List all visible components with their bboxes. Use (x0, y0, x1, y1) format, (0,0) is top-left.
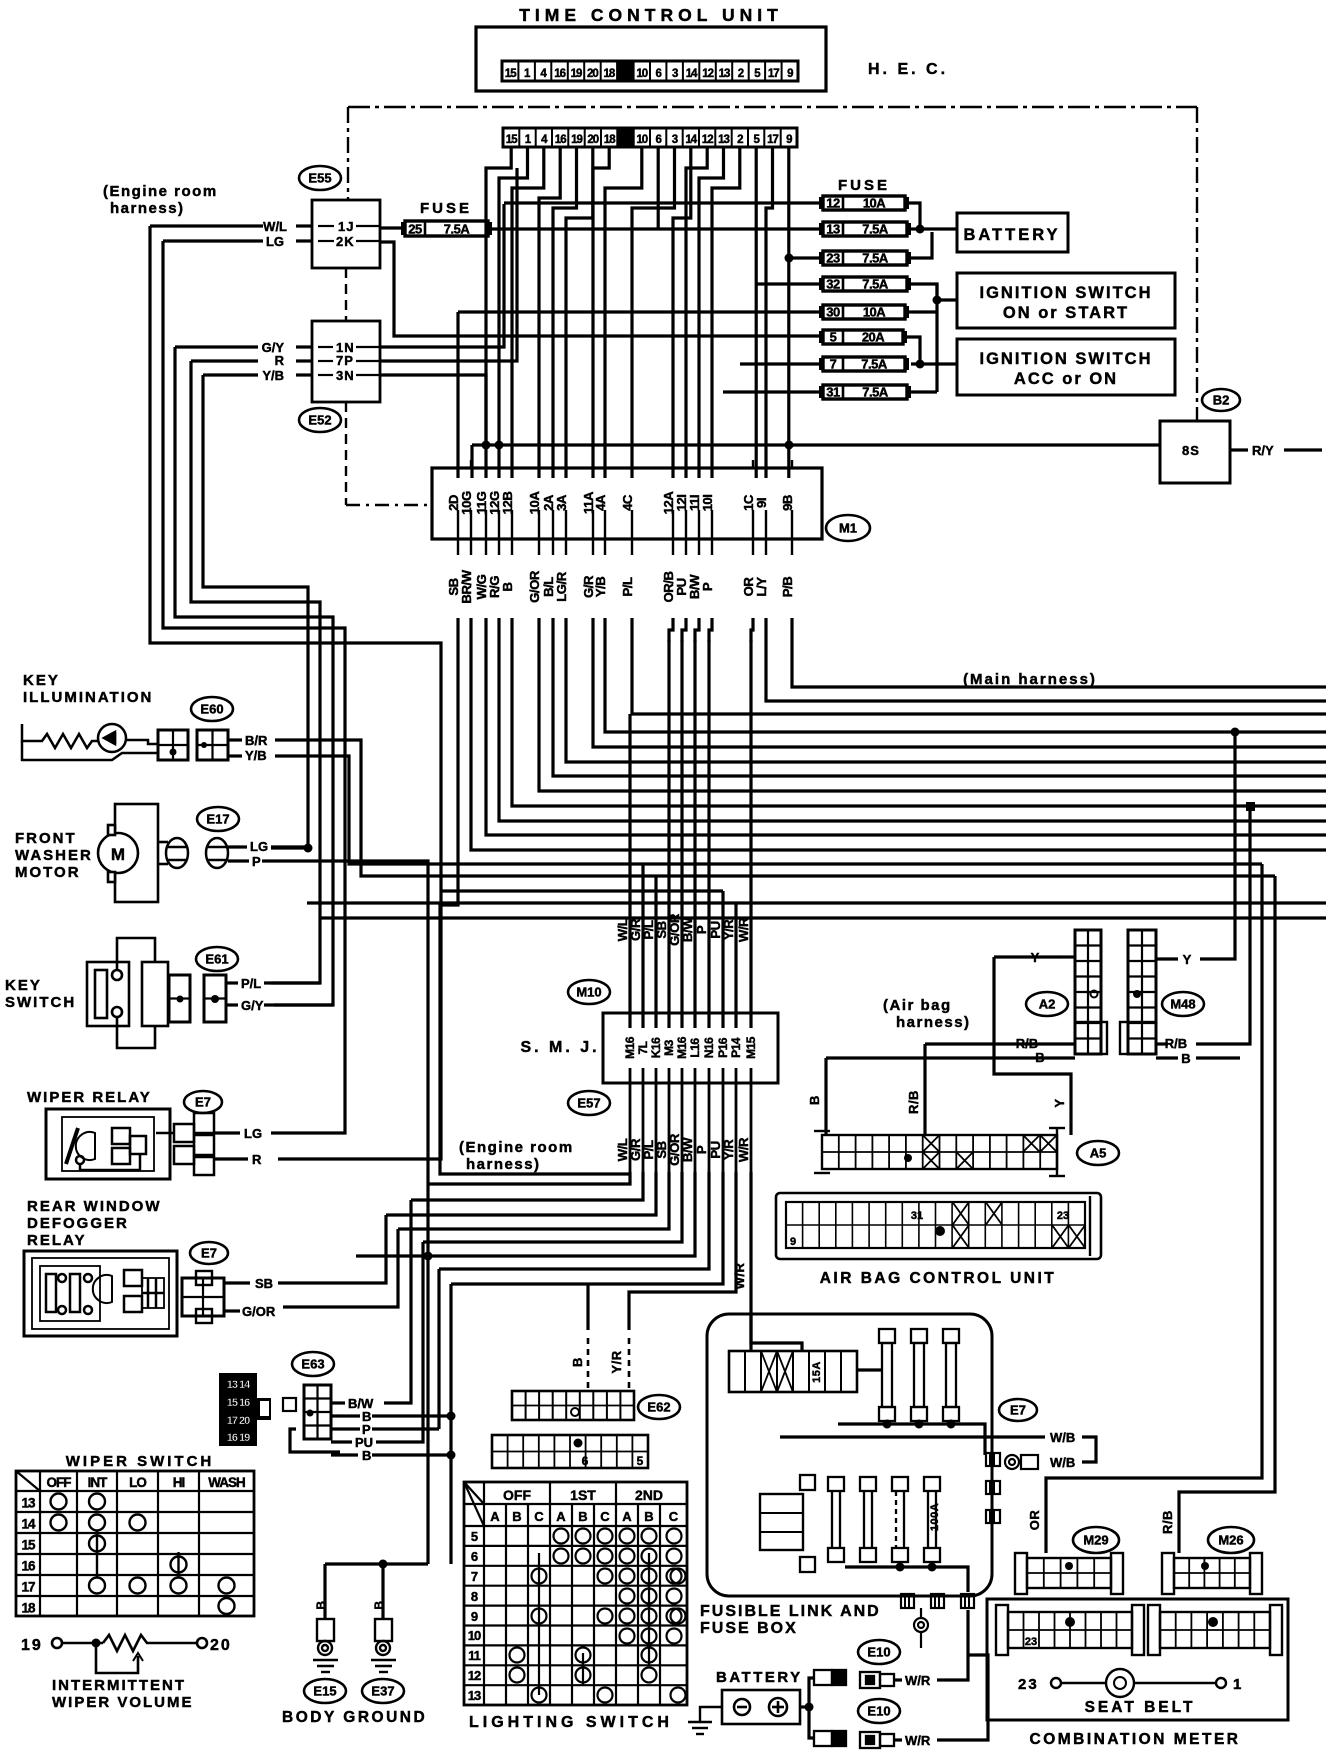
svg-text:BODY GROUND: BODY GROUND (282, 1709, 427, 1726)
dash link E55-E52 (345, 268, 347, 321)
svg-text:R: R (275, 353, 285, 368)
svg-text:RELAY: RELAY (27, 1232, 86, 1249)
wire Y/B E60 to harness 864 (275, 756, 1262, 864)
svg-text:R/Y: R/Y (1252, 443, 1274, 458)
svg-text:(Engine room: (Engine room (103, 183, 218, 200)
wire P E17 down to ground row (262, 861, 428, 1564)
svg-text:11: 11 (468, 1648, 481, 1663)
svg-text:9: 9 (790, 1236, 796, 1248)
stub W/L to E55 (296, 224, 312, 227)
svg-text:18: 18 (604, 134, 616, 146)
svg-text:W/R: W/R (905, 1733, 931, 1748)
svg-text:Y: Y (1052, 1098, 1067, 1107)
svg-text:18: 18 (21, 1601, 36, 1616)
svg-text:M15: M15 (744, 1036, 758, 1059)
svg-text:E62: E62 (647, 1400, 670, 1415)
wire SB M1 loop down-left (440, 618, 630, 1174)
wire harness 918 (319, 916, 1326, 919)
svg-text:E63: E63 (301, 1357, 324, 1372)
ground connector E37 symbol (371, 1619, 396, 1672)
wire fuse12 row left (504, 201, 823, 204)
svg-text:B: B (512, 1509, 521, 1524)
svg-text:12: 12 (468, 1668, 481, 1683)
svg-text:3A: 3A (554, 494, 569, 511)
TCU connector strip pins (502, 61, 798, 81)
svg-text:WIPER VOLUME: WIPER VOLUME (52, 1694, 194, 1711)
svg-text:E55: E55 (308, 171, 331, 186)
lighting switch table headers (468, 1487, 679, 1703)
E10 lower connector and W/R (860, 1732, 894, 1748)
svg-text:OFF: OFF (503, 1487, 531, 1503)
hatched stubs right edge (986, 1453, 1000, 1466)
wire B E63 right (372, 1414, 451, 1417)
E61 block left (169, 975, 190, 1022)
svg-text:FUSE BOX: FUSE BOX (700, 1620, 798, 1637)
wire Y/R to E62 (629, 1172, 736, 1330)
connector ref E62 (638, 1395, 680, 1419)
svg-text:5: 5 (637, 1454, 644, 1468)
svg-text:10A: 10A (863, 196, 886, 211)
svg-text:B: B (1181, 1051, 1190, 1066)
junction ign1 feed (933, 296, 942, 305)
svg-text:A5: A5 (1090, 1146, 1107, 1161)
engine-harness connector strip pins (503, 128, 797, 147)
wire harness 891 (440, 889, 723, 892)
wire B/W E63 via x411 (384, 1200, 411, 1403)
svg-text:6: 6 (655, 68, 661, 80)
W/B bracket (1082, 1437, 1096, 1462)
svg-text:1J: 1J (338, 219, 354, 234)
E10 upper connector and W/R (860, 1672, 894, 1688)
svg-text:BATTERY: BATTERY (963, 226, 1060, 244)
svg-text:L/Y: L/Y (754, 577, 769, 597)
svg-text:10I: 10I (700, 495, 715, 512)
wire W/R into fuse strip (751, 1314, 802, 1351)
junction battery feed (916, 225, 925, 234)
svg-text:W/R: W/R (736, 917, 751, 942)
svg-text:MOTOR: MOTOR (15, 864, 81, 881)
wire E63 loop (290, 1429, 340, 1452)
washer motor symbol M (98, 804, 168, 902)
wire fuse12 to battery (907, 203, 957, 229)
wire 7P right up (380, 168, 517, 361)
junction E17 LG (304, 844, 313, 853)
svg-text:harness): harness) (466, 1156, 541, 1173)
harness boundary dash-dot right (1196, 107, 1198, 421)
connector A5 strip (822, 1135, 1057, 1169)
svg-text:E17: E17 (206, 812, 229, 827)
wire W/L left (150, 224, 263, 227)
M1 pin tick stubs (458, 460, 792, 555)
svg-text:12: 12 (826, 196, 840, 211)
svg-text:2K: 2K (336, 234, 355, 249)
svg-text:W/B: W/B (1050, 1455, 1075, 1470)
junction battery positive (805, 1703, 814, 1712)
link strip to links (857, 1368, 882, 1371)
air bag control unit strip (776, 1193, 1101, 1259)
lighting switch connector strip (492, 1435, 648, 1468)
wire B dashed to E62 (587, 1338, 590, 1391)
junction E37 feed (379, 1560, 388, 1569)
connector bolt symbol below box (914, 1608, 928, 1648)
svg-text:harness): harness) (110, 200, 185, 217)
connector ref A2 (1026, 992, 1068, 1016)
svg-text:Y: Y (1183, 952, 1192, 967)
lighting switch table (464, 1482, 687, 1705)
svg-text:7.5A: 7.5A (862, 385, 889, 400)
svg-text:3N: 3N (336, 368, 355, 383)
wiper switch contact circles (51, 1494, 235, 1615)
svg-text:3: 3 (672, 68, 678, 80)
wire G/Y left (175, 345, 258, 348)
wire W/B top (780, 1435, 1045, 1438)
svg-text:B: B (578, 1509, 587, 1524)
svg-text:harness): harness) (896, 1014, 971, 1031)
lighting switch contact circles (510, 1529, 686, 1703)
wire fuse32 to ign1 (911, 284, 957, 300)
IGNITION SWITCH ACC or ON box (957, 339, 1175, 395)
svg-text:7P: 7P (336, 353, 354, 368)
left bus wire W/L (150, 226, 441, 1159)
svg-text:23: 23 (1018, 1676, 1039, 1693)
svg-text:G/Y: G/Y (241, 998, 264, 1013)
vertical fusible links top trio (879, 1329, 895, 1421)
svg-text:SB: SB (255, 1276, 273, 1291)
svg-text:B: B (372, 1600, 386, 1609)
inner wire row with junctions (838, 1424, 985, 1455)
svg-text:7.5A: 7.5A (862, 277, 889, 292)
left bus wire LG (163, 241, 345, 1133)
svg-text:30: 30 (826, 305, 840, 320)
seat belt indicator circuit (1018, 1669, 1241, 1697)
svg-text:L16: L16 (688, 1038, 702, 1058)
connector ref E10 (858, 1640, 900, 1664)
wire Y down to A5 (994, 957, 1071, 1135)
wire fuse7 left (740, 362, 823, 365)
svg-text:23: 23 (1025, 1636, 1037, 1648)
wire LG to bus (271, 845, 308, 848)
IGNITION SWITCH ON or START box (957, 273, 1175, 328)
svg-text:13: 13 (718, 134, 729, 146)
harness boundary dash-dot top (348, 106, 1197, 108)
wire B/R E60 to harness 876 (275, 740, 1275, 876)
svg-text:IGNITION SWITCH: IGNITION SWITCH (980, 350, 1153, 368)
connector ref M26 (1208, 1527, 1254, 1553)
svg-text:M29: M29 (1083, 1533, 1108, 1548)
svg-text:17 20: 17 20 (227, 1415, 250, 1427)
intermittent wiper volume potentiometer (21, 1635, 232, 1673)
svg-text:R/B: R/B (1160, 1510, 1175, 1534)
svg-text:LG: LG (250, 839, 268, 854)
svg-text:R/B: R/B (1016, 1036, 1038, 1051)
svg-text:P/L: P/L (241, 976, 261, 991)
fuse 32 7.5A (819, 277, 911, 292)
wires M1 to SMJ verticals (630, 618, 753, 1028)
svg-text:G/OR: G/OR (527, 570, 542, 603)
svg-text:25: 25 (408, 222, 422, 237)
svg-text:S. M. J.: S. M. J. (520, 1039, 599, 1056)
wire fuse7 to ign2 (911, 362, 957, 365)
wire B M48 right (1196, 1056, 1240, 1059)
wire B E63 lower right (372, 1453, 451, 1456)
wire fuse5 to acc (907, 337, 920, 364)
svg-text:P: P (252, 854, 261, 869)
fuse 12 10A (819, 196, 909, 211)
svg-text:7.5A: 7.5A (861, 357, 888, 372)
svg-text:E37: E37 (371, 1684, 394, 1699)
connector M26 strip (1162, 1553, 1262, 1594)
svg-text:15: 15 (505, 68, 517, 80)
wire body ground row (325, 1562, 428, 1565)
junction R/B harness square marker (1246, 802, 1255, 811)
svg-text:LO: LO (129, 1475, 146, 1490)
svg-text:31: 31 (826, 385, 840, 400)
key switch symbol (87, 938, 168, 1048)
svg-text:WIPER RELAY: WIPER RELAY (27, 1089, 152, 1106)
E61 block right (204, 975, 226, 1022)
svg-text:1ST: 1ST (570, 1487, 596, 1503)
svg-text:Y/B: Y/B (245, 748, 267, 763)
connector ref M48 (1162, 992, 1204, 1016)
junction pot wiper (92, 1639, 101, 1648)
svg-text:WASH: WASH (208, 1475, 245, 1490)
svg-text:WIPER SWITCH: WIPER SWITCH (66, 1453, 215, 1470)
svg-text:FUSE: FUSE (838, 177, 890, 194)
wiper switch table (16, 1471, 254, 1616)
svg-text:13: 13 (21, 1496, 36, 1511)
svg-text:10A: 10A (863, 305, 886, 320)
svg-text:Y/R: Y/R (721, 1139, 736, 1160)
SMJ bottom wire colour labels (615, 1133, 751, 1166)
E60 connector block left (158, 730, 188, 760)
M1 wire colour labels (446, 569, 795, 603)
svg-text:19: 19 (571, 68, 582, 80)
svg-text:A: A (556, 1509, 566, 1524)
E63 dark cells block (219, 1373, 271, 1446)
svg-text:FRONT: FRONT (15, 830, 77, 847)
BATTERY box top (957, 213, 1068, 252)
wire E37 down (381, 1564, 384, 1619)
svg-text:M3: M3 (662, 1039, 676, 1055)
svg-text:9B: 9B (780, 495, 795, 511)
fusible link strip (729, 1351, 857, 1392)
svg-text:A: A (490, 1509, 500, 1524)
SMJ internal pin labels (623, 1036, 758, 1059)
svg-text:9: 9 (787, 68, 793, 80)
wire W/R col down to fuse box (749, 1172, 752, 1351)
svg-text:WASHER: WASHER (15, 847, 93, 864)
fuse 30 10A (819, 305, 909, 320)
svg-text:2: 2 (737, 134, 743, 146)
svg-text:R/B: R/B (1165, 1036, 1187, 1051)
wire fuse25 to fuse13 row (488, 227, 823, 230)
connector blocks E10 lower (814, 1731, 846, 1746)
harness boundary dash-dot left upper (347, 107, 349, 200)
wire Y down to M48 (1200, 732, 1235, 959)
svg-text:7: 7 (471, 1569, 478, 1584)
svg-text:23: 23 (1057, 1210, 1069, 1222)
svg-text:P: P (694, 925, 709, 934)
wires TCU strip to M1 (458, 147, 789, 478)
combination meter left connector strip (996, 1605, 1144, 1655)
time control unit U1 box (476, 27, 826, 91)
svg-text:P/B: P/B (780, 577, 795, 597)
wire G/OR defogger (283, 1229, 398, 1307)
svg-text:2: 2 (738, 68, 744, 80)
wire W/R lower up (937, 1655, 988, 1740)
wires E57 staircase left (356, 1172, 709, 1269)
svg-text:(Engine room: (Engine room (459, 1139, 574, 1156)
svg-text:15: 15 (506, 134, 518, 146)
svg-text:13: 13 (826, 222, 840, 237)
wire E15 down (323, 1564, 326, 1619)
svg-text:G/OR: G/OR (242, 1304, 276, 1319)
svg-text:E61: E61 (205, 952, 228, 967)
svg-text:8S: 8S (1182, 443, 1200, 458)
svg-text:15A: 15A (811, 1361, 823, 1383)
connector E52 box (312, 321, 380, 402)
connector ref E10 (858, 1699, 900, 1723)
junction E63 B lower (447, 1451, 456, 1460)
svg-text:17: 17 (21, 1580, 35, 1595)
svg-text:B/R: B/R (245, 733, 268, 748)
wire LG left (163, 239, 263, 242)
fuse 31 7.5A (819, 385, 911, 400)
svg-text:LG: LG (266, 234, 284, 249)
svg-text:W/R: W/R (732, 1263, 747, 1290)
SMJ top wire colour labels (615, 913, 751, 946)
vertical ign feed bus (935, 284, 938, 392)
dash link to M1 (346, 504, 432, 506)
junction acc feed (916, 360, 925, 369)
wire Y/R dashed to E62 (628, 1338, 631, 1391)
dash link E52 down (345, 402, 347, 505)
wire 2K to fuse5 row (380, 242, 823, 336)
fuse 13 7.5A (819, 222, 911, 237)
wire P/L to bus (271, 981, 320, 984)
wiper relay box internals (46, 1109, 170, 1179)
SMJ box (603, 1013, 778, 1083)
svg-text:6: 6 (471, 1549, 478, 1564)
svg-text:31: 31 (911, 1210, 923, 1222)
defogger relay box internals (24, 1251, 177, 1336)
SMJ bottom tick stubs (630, 1068, 751, 1174)
connector ref E55 (299, 166, 341, 190)
svg-text:13: 13 (719, 68, 730, 80)
wire PU E63 via x423 (376, 1242, 423, 1442)
svg-text:E57: E57 (577, 1096, 600, 1111)
junction 11G wire (482, 441, 491, 450)
wire fuse30 row left (458, 310, 823, 313)
connector B2 box (1160, 421, 1230, 483)
svg-text:16: 16 (554, 68, 565, 80)
svg-text:B: B (1035, 1050, 1044, 1065)
wire to E10 lower (809, 1707, 814, 1738)
connector M29 strip (1015, 1553, 1123, 1594)
svg-text:23: 23 (826, 251, 840, 266)
svg-text:6: 6 (655, 134, 661, 146)
connector ref E37 (362, 1679, 404, 1703)
svg-text:1: 1 (1233, 1676, 1241, 1693)
connector blocks E10 upper (814, 1670, 846, 1685)
svg-text:M16: M16 (675, 1036, 689, 1059)
svg-text:K16: K16 (649, 1037, 663, 1058)
connector E7 cross (156, 1113, 214, 1175)
svg-text:E7: E7 (1010, 1403, 1026, 1418)
connector ref M10 (568, 980, 610, 1004)
svg-text:13 14: 13 14 (227, 1379, 251, 1391)
svg-text:REAR WINDOW: REAR WINDOW (27, 1198, 162, 1215)
svg-text:16: 16 (555, 134, 566, 146)
svg-text:10: 10 (636, 68, 647, 80)
junction E63 B (447, 1412, 456, 1421)
svg-text:4A: 4A (593, 494, 608, 511)
lower fusible links (828, 1477, 844, 1562)
svg-text:M: M (111, 845, 125, 864)
svg-text:100A: 100A (929, 1503, 941, 1531)
wire fuse31 left (723, 390, 823, 393)
svg-text:H. E. C.: H. E. C. (868, 61, 948, 78)
svg-text:B: B (644, 1509, 653, 1524)
connector ref E60 (191, 697, 233, 721)
svg-text:5: 5 (471, 1529, 478, 1544)
wire fuse30 to ign1 (907, 310, 937, 313)
svg-text:P/L: P/L (620, 577, 635, 596)
junction fuse23/pin9 wire (785, 254, 794, 263)
combination meter right connector strip (1148, 1605, 1282, 1655)
svg-text:P16: P16 (716, 1037, 730, 1058)
svg-text:10: 10 (468, 1628, 481, 1643)
left bus wire G/Y (175, 347, 333, 1005)
svg-text:ILLUMINATION: ILLUMINATION (23, 689, 153, 706)
svg-text:3: 3 (672, 134, 678, 146)
svg-text:Y/R: Y/R (609, 1350, 624, 1373)
svg-text:P14: P14 (729, 1037, 743, 1058)
svg-text:16: 16 (21, 1559, 36, 1574)
combination meter box (987, 1599, 1288, 1720)
wire B down to E62 (586, 1284, 589, 1330)
svg-text:E10: E10 (867, 1645, 890, 1660)
wire fuse23 up to battery feed (911, 232, 932, 258)
svg-text:15: 15 (21, 1538, 36, 1553)
wire B A2 (826, 1056, 1075, 1059)
svg-text:B: B (314, 1600, 328, 1609)
svg-text:M48: M48 (1170, 997, 1195, 1012)
wire fuse31 right (911, 390, 937, 393)
svg-text:4C: 4C (620, 494, 635, 511)
left bus wire R (191, 361, 320, 983)
svg-text:18: 18 (604, 68, 616, 80)
junction P wire crossing (424, 1252, 433, 1261)
svg-text:7: 7 (830, 357, 837, 372)
svg-text:14: 14 (685, 134, 697, 146)
svg-text:Y/R: Y/R (721, 919, 736, 940)
connector ref E7 (184, 1091, 222, 1113)
svg-text:AIR BAG CONTROL UNIT: AIR BAG CONTROL UNIT (820, 1270, 1057, 1287)
stub B2 right (1230, 448, 1248, 451)
svg-text:14: 14 (21, 1517, 36, 1532)
svg-text:Y/B: Y/B (262, 368, 284, 383)
wire R/B A2 (925, 1042, 1075, 1045)
E7 defogger connector (182, 1278, 224, 1316)
svg-text:2ND: 2ND (635, 1487, 663, 1503)
connector ref A5 (1077, 1141, 1119, 1165)
svg-text:32: 32 (826, 277, 840, 292)
connector ref E15 (304, 1679, 346, 1703)
svg-text:LG: LG (244, 1126, 262, 1141)
svg-text:6: 6 (582, 1454, 589, 1468)
connector E63 grid (304, 1385, 331, 1439)
